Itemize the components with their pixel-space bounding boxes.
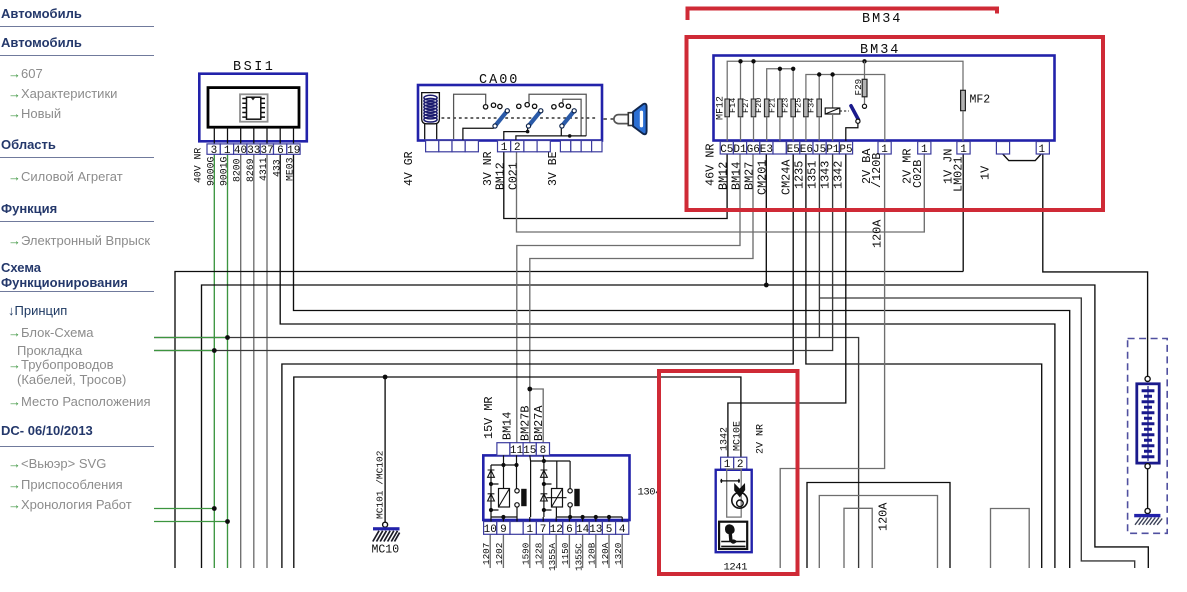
svg-text:6: 6 xyxy=(277,145,284,157)
svg-text:MC10: MC10 xyxy=(372,544,400,557)
wire 1351 bus xyxy=(154,338,859,569)
wire 120A (1304 pin 5) xyxy=(608,534,610,568)
svg-text:37: 37 xyxy=(260,145,273,157)
wire 1150 (1304 pin 6) xyxy=(568,534,570,568)
wire 1590 (1304 pin 1) xyxy=(529,534,531,568)
BSI1 pin stubs xyxy=(214,127,293,144)
1304 relay 2 circuit xyxy=(530,455,622,521)
svg-text:CM201: CM201 xyxy=(756,160,770,195)
node BM27 split xyxy=(527,387,532,392)
svg-text:1342: 1342 xyxy=(719,427,730,451)
1304 box xyxy=(483,455,629,520)
svg-text:1: 1 xyxy=(224,145,231,157)
svg-text:1342: 1342 xyxy=(832,161,846,189)
CA00 contact circles xyxy=(483,103,570,110)
relay K1 blade xyxy=(851,106,858,120)
key icon xyxy=(614,104,647,135)
fuse F34 xyxy=(817,99,822,117)
wire U-link BM34 bottom xyxy=(1003,154,1041,161)
svg-text:1: 1 xyxy=(526,524,533,536)
CA00 feed wire switch 1 xyxy=(454,94,486,139)
pump flag symbol xyxy=(734,483,745,497)
svg-text:8200: 8200 xyxy=(232,158,243,182)
svg-text:15V MR: 15V MR xyxy=(482,397,496,439)
svg-text:1355C: 1355C xyxy=(573,543,584,571)
wire 1355C (1304 pin 14) xyxy=(582,534,584,568)
svg-text:4: 4 xyxy=(619,524,626,536)
wire green branch lower-left 2 xyxy=(154,521,228,523)
wire LM021 riser from BM34 xyxy=(962,154,964,272)
wire 1351 branch right xyxy=(819,298,1134,568)
svg-text:8: 8 xyxy=(540,445,547,457)
svg-text:12: 12 xyxy=(550,524,563,536)
relay K1 output to P5 xyxy=(846,123,858,141)
svg-text:1: 1 xyxy=(921,144,928,156)
battery terminal top xyxy=(1145,376,1150,381)
1241 pin boxes xyxy=(721,457,747,469)
wire 1V (BM34 to battery) xyxy=(1043,154,1148,376)
svg-text:1: 1 xyxy=(960,144,967,156)
svg-text:BSI1: BSI1 xyxy=(233,60,275,75)
svg-text:4311: 4311 xyxy=(258,157,269,181)
ECU BSI1 outer box xyxy=(199,74,306,142)
relay K1 link dashed xyxy=(840,110,849,112)
svg-text:MF12: MF12 xyxy=(716,96,727,120)
svg-text:F29: F29 xyxy=(853,79,864,96)
CA00 cam dashed line xyxy=(442,117,599,119)
wire 120A (BM34 2V BA pin) xyxy=(780,154,884,568)
MC10 ground bar xyxy=(373,527,400,530)
svg-text:F27: F27 xyxy=(741,98,751,113)
wire 433 (BSI1 pin 6 to right leg) xyxy=(280,154,1055,568)
battery BB00 body xyxy=(1137,384,1159,463)
svg-text:40: 40 xyxy=(234,145,247,157)
svg-text:P1: P1 xyxy=(826,144,840,156)
CA00 pin numbers xyxy=(501,142,521,154)
svg-text:1V: 1V xyxy=(979,165,993,180)
svg-text:MF2: MF2 xyxy=(970,94,991,107)
svg-text:3: 3 xyxy=(211,145,218,157)
svg-text:1355A: 1355A xyxy=(547,543,558,571)
node switch outputs xyxy=(526,130,530,134)
battery centre conductor xyxy=(1147,386,1149,461)
node green lower 2 xyxy=(225,519,230,524)
svg-text:9000G: 9000G xyxy=(205,156,216,186)
wire 9001G (BSI1 pin 1, green) xyxy=(227,154,229,568)
wire 1343 bus (to BM34 P1) xyxy=(154,154,833,351)
node MC10 tap xyxy=(383,375,388,380)
BM34 red frame xyxy=(687,37,1104,210)
CA00 switch 1 output xyxy=(463,128,494,140)
battery terminal bottom xyxy=(1145,508,1150,513)
pump motor circle xyxy=(732,493,748,509)
svg-text:C5: C5 xyxy=(720,144,733,156)
svg-text:14: 14 xyxy=(576,524,590,536)
svg-text:1590: 1590 xyxy=(521,543,532,565)
wire 1320 (1304 pin 4) xyxy=(621,534,623,568)
svg-text:2: 2 xyxy=(514,142,521,154)
BSI1 pin boxes xyxy=(207,144,300,154)
svg-text:BM27: BM27 xyxy=(743,162,757,190)
svg-text:F23: F23 xyxy=(781,98,791,113)
CA00 pin boxes xyxy=(426,141,602,152)
CA00 switch 2 output xyxy=(504,128,528,141)
wire 1342 (BM34 P5 to 1241 pin 1) xyxy=(728,154,846,457)
svg-text:1: 1 xyxy=(1038,144,1045,156)
wire jog A xyxy=(807,483,950,569)
svg-text:E6: E6 xyxy=(800,144,813,156)
fuse MF2 xyxy=(961,90,966,110)
svg-text:1320: 1320 xyxy=(613,543,624,565)
battery ground hatching xyxy=(1135,518,1162,525)
node green1-1351 xyxy=(225,335,230,340)
svg-text:15: 15 xyxy=(523,445,536,457)
pump commutator bar xyxy=(721,479,739,483)
svg-text:120B: 120B xyxy=(587,542,598,565)
svg-text:BM14: BM14 xyxy=(500,412,514,440)
wire battery to ground xyxy=(1147,469,1149,509)
svg-text:2V NR: 2V NR xyxy=(756,424,767,454)
svg-text:ME03: ME03 xyxy=(285,157,296,181)
svg-text:3V BE: 3V BE xyxy=(547,151,560,186)
MC10 ground hatching xyxy=(373,531,400,542)
wire 4311 (BSI1 pin 37) xyxy=(266,154,268,568)
wire CM24A (BM34 E5 to bottom left) xyxy=(282,154,793,568)
fuse F29 xyxy=(864,61,866,104)
1304 bottom pin boxes xyxy=(484,522,629,535)
wire 1355A (1304 pin 12) xyxy=(555,534,557,568)
node E3 on bus xyxy=(764,283,769,288)
BM34 blue box xyxy=(714,56,1055,141)
wire 1202 (1304 pin 9) xyxy=(502,534,504,568)
wire green branch lower-left 1 xyxy=(154,508,214,510)
wire 1207 (1304 pin 10) xyxy=(489,534,491,568)
CA00 feed wire switch 3 xyxy=(563,99,581,136)
svg-text:19: 19 xyxy=(287,145,300,157)
svg-text:BM27A: BM27A xyxy=(532,405,546,441)
battery terminal mid xyxy=(1145,464,1150,469)
1304 top pin boxes xyxy=(497,443,550,456)
wire 1343 green segment xyxy=(154,350,214,352)
svg-text:P5: P5 xyxy=(839,144,852,156)
CA00 feed wire switch 2 xyxy=(529,94,586,136)
node green lower 1 xyxy=(212,506,217,511)
wire BM12 (CA00 pin 1 to BM34 C5) xyxy=(504,152,727,219)
wire 1228 (1304 pin 7) xyxy=(542,534,544,568)
wire BM27A branch to 1304 pin 8 xyxy=(530,389,543,443)
wire E3 riser BM34 xyxy=(765,154,767,285)
BM34 internal bus B xyxy=(767,69,794,99)
wire 120B (1304 pin 13) xyxy=(595,534,597,568)
relay K1 coil xyxy=(825,108,840,114)
wire 8269 (BSI1 pin 33) xyxy=(253,154,255,568)
svg-text:CA00: CA00 xyxy=(479,73,519,88)
svg-text:5: 5 xyxy=(606,524,613,536)
svg-text:BM27B: BM27B xyxy=(519,406,533,441)
CA00 box xyxy=(418,85,602,141)
fuse F14 xyxy=(738,99,743,117)
wire 1351 green segment xyxy=(154,337,228,339)
wire bus 46V to left leg xyxy=(175,272,963,569)
wire CM201 bus (node E3) xyxy=(202,285,1149,568)
svg-text:MC101 /MC102: MC101 /MC102 xyxy=(375,450,386,519)
svg-text:8269: 8269 xyxy=(245,158,256,182)
fuse bottom leads xyxy=(727,117,819,142)
CA00 coil legs xyxy=(425,124,437,139)
battery dashed frame xyxy=(1128,339,1168,534)
BM34 pin boxes xyxy=(720,142,1049,155)
svg-text:1241: 1241 xyxy=(724,562,748,574)
BM34 internal bus dots xyxy=(738,59,866,77)
1304 relay 1 circuit xyxy=(488,455,517,521)
wire C021 (CA00 pin 2 to BM34 C02B) xyxy=(517,152,925,232)
wire ME03 (BSI1 pin 19 to right leg) xyxy=(294,154,1070,568)
svg-text:9: 9 xyxy=(500,524,507,536)
battery plates xyxy=(1142,391,1155,457)
BM34 internal bus C xyxy=(806,75,885,142)
svg-text:F14: F14 xyxy=(728,98,738,113)
wire loop 1 xyxy=(844,508,872,568)
svg-text:BM12: BM12 xyxy=(494,162,507,190)
svg-text:6: 6 xyxy=(566,524,573,536)
battery ground bar xyxy=(1134,514,1160,517)
wire MC10E (1241 pin 2 to left leg) xyxy=(294,377,741,568)
wire 8200 (BSI1 pin 40) xyxy=(240,154,242,568)
fuse F20 xyxy=(764,99,769,117)
svg-text:1351: 1351 xyxy=(805,161,819,189)
wire BM14 (BM34 D1 to 1304 pin 11) xyxy=(517,154,740,443)
svg-text:1207: 1207 xyxy=(481,543,492,565)
svg-text:BM34: BM34 xyxy=(862,12,902,27)
BSI1 pin numbers xyxy=(211,145,301,157)
1241 blue box xyxy=(716,470,752,552)
wire BM27 (BM34 G6 to 1304 pin 15) xyxy=(530,154,753,443)
fuse F23 xyxy=(791,99,796,117)
ECU BSI1 inner body xyxy=(208,88,299,128)
svg-text:120A: 120A xyxy=(600,542,611,565)
svg-text:BM14: BM14 xyxy=(729,162,743,190)
svg-text:F21: F21 xyxy=(767,98,777,113)
svg-text:F34: F34 xyxy=(807,98,817,113)
1241 red frame xyxy=(659,371,798,574)
svg-text:/120B: /120B xyxy=(870,153,884,188)
svg-text:D1: D1 xyxy=(733,144,747,156)
BM34 internal bus A xyxy=(727,61,963,99)
MC10 terminal xyxy=(383,522,388,527)
svg-text:10: 10 xyxy=(484,524,497,536)
svg-text:1343: 1343 xyxy=(819,161,833,189)
svg-text:33: 33 xyxy=(247,145,260,157)
CA00 switch 3 output xyxy=(516,128,586,141)
fuse labels xyxy=(716,96,817,120)
node green2-1343 xyxy=(212,348,217,353)
svg-text:40V NR: 40V NR xyxy=(193,148,204,183)
svg-text:1150: 1150 xyxy=(560,543,571,565)
fuse F21 xyxy=(778,99,783,117)
svg-text:7: 7 xyxy=(540,524,547,536)
CA00 solenoid coil xyxy=(422,93,440,124)
svg-text:F25: F25 xyxy=(793,98,803,113)
svg-text:J5: J5 xyxy=(813,144,826,156)
BM34 upper red frame (clipped) xyxy=(688,9,998,21)
fuse F25 xyxy=(804,99,809,117)
svg-text:G6: G6 xyxy=(747,144,760,156)
relay K1 coil lead to P1 xyxy=(832,114,834,142)
svg-text:120A: 120A xyxy=(877,502,891,531)
relay K1 moving terminal xyxy=(856,119,860,123)
svg-text:1: 1 xyxy=(501,142,508,154)
svg-text:1228: 1228 xyxy=(534,543,545,565)
wire loop 2 xyxy=(991,509,1030,569)
svg-text:E5: E5 xyxy=(787,144,800,156)
svg-text:9001G: 9001G xyxy=(219,156,230,186)
svg-text:4V GR: 4V GR xyxy=(403,151,416,186)
wire key stem dashes xyxy=(604,118,614,120)
svg-text:CM24A: CM24A xyxy=(780,159,794,195)
svg-text:1235: 1235 xyxy=(792,161,806,189)
wire 9000G (BSI1 pin 3, green) xyxy=(213,154,215,568)
svg-text:LM021: LM021 xyxy=(952,157,966,192)
IC chip symbol U1 xyxy=(240,94,268,121)
svg-text:433: 433 xyxy=(271,159,282,177)
svg-text:120A: 120A xyxy=(871,219,885,248)
CA00 switch blades xyxy=(495,111,574,126)
svg-text:MC10E: MC10E xyxy=(732,421,743,451)
svg-text:C02B: C02B xyxy=(911,160,925,188)
fuse F27 xyxy=(751,99,756,117)
wire MC10 ground branch xyxy=(384,377,386,522)
junction dots xyxy=(212,283,769,524)
svg-text:C021: C021 xyxy=(507,162,520,190)
fuse MF12 xyxy=(725,99,730,117)
wire 1351 riser BM34 J5 xyxy=(818,154,820,338)
pump motor frame xyxy=(727,469,742,517)
svg-text:1202: 1202 xyxy=(494,543,505,565)
wire 1235 (BM34 E6 to bottom right) xyxy=(806,154,1042,568)
wire jog B xyxy=(819,496,937,569)
pump icon box xyxy=(719,522,747,549)
BM34 pin ids xyxy=(720,144,1045,156)
svg-text:13: 13 xyxy=(589,524,602,536)
svg-text:3V NR: 3V NR xyxy=(482,151,495,186)
svg-text:E3: E3 xyxy=(760,144,773,156)
svg-text:BM12: BM12 xyxy=(716,162,730,190)
svg-text:F20: F20 xyxy=(754,98,764,113)
